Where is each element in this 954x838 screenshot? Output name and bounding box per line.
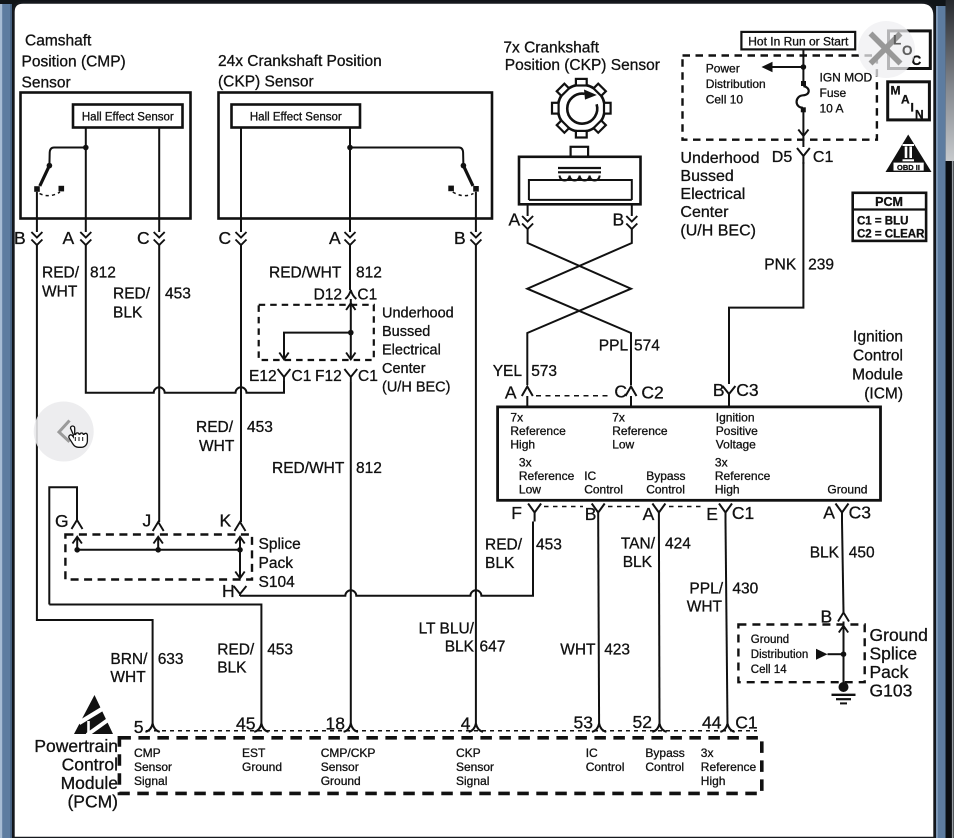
svg-text:Voltage: Voltage xyxy=(716,438,756,452)
svg-text:Positive: Positive xyxy=(716,424,758,438)
OBD II triangle xyxy=(886,135,932,173)
CKP switch blade xyxy=(463,166,473,186)
svg-text:BRN/: BRN/ xyxy=(110,651,148,668)
svg-text:Electrical: Electrical xyxy=(382,343,441,359)
wire CMP B down to PCM pin 5 xyxy=(37,245,153,725)
svg-text:S104: S104 xyxy=(259,574,296,591)
svg-text:C2: C2 xyxy=(641,383,663,403)
wire 7x lead B xyxy=(631,204,633,216)
splice bus bar xyxy=(77,549,240,551)
node CMP switch pivot xyxy=(47,163,53,169)
wire PNK 239 xyxy=(729,162,803,384)
svg-text:Pack: Pack xyxy=(259,555,294,572)
CMP hall effect sensor box xyxy=(73,105,183,128)
svg-text:24x Crankshaft Position: 24x Crankshaft Position xyxy=(218,53,382,70)
svg-text:IGN MOD: IGN MOD xyxy=(820,71,873,85)
svg-text:430: 430 xyxy=(732,581,758,598)
fuse IGN MOD xyxy=(801,81,806,86)
power distribution dashed box xyxy=(683,56,877,140)
svg-text:812: 812 xyxy=(356,460,382,477)
svg-text:5: 5 xyxy=(134,717,144,737)
svg-text:Sensor: Sensor xyxy=(456,760,494,774)
svg-text:52: 52 xyxy=(633,712,652,732)
wire ICM A(ground) down xyxy=(842,522,844,613)
svg-text:7x Crankshaft: 7x Crankshaft xyxy=(503,40,599,57)
svg-text:B: B xyxy=(454,228,466,248)
svg-text:BLK: BLK xyxy=(810,545,840,562)
node splice J xyxy=(155,547,161,553)
svg-text:C3: C3 xyxy=(849,503,871,523)
svg-text:F: F xyxy=(511,503,522,523)
svg-text:Sensor: Sensor xyxy=(22,75,71,92)
svg-text:D5: D5 xyxy=(772,149,793,166)
label Ignition Control Module (ICM) xyxy=(852,329,903,403)
svg-text:Underhood: Underhood xyxy=(382,306,454,322)
svg-text:L: L xyxy=(893,33,901,48)
svg-text:Ignition: Ignition xyxy=(853,329,903,346)
svg-text:(ICM): (ICM) xyxy=(864,386,903,403)
wire 7x lead A xyxy=(527,204,529,216)
svg-text:453: 453 xyxy=(267,642,293,659)
CMP switch travel arc xyxy=(40,192,61,196)
CKP sensor box xyxy=(219,93,493,219)
svg-text:3x: 3x xyxy=(715,456,728,470)
svg-text:453: 453 xyxy=(165,286,191,303)
node CMP switch junction xyxy=(83,145,89,151)
ESD warning symbol xyxy=(74,695,114,735)
svg-text:E12: E12 xyxy=(249,368,277,385)
svg-text:Cell 10: Cell 10 xyxy=(706,93,744,107)
svg-text:IC: IC xyxy=(586,746,598,760)
wire ICM E to PCM pin 44 xyxy=(726,522,728,725)
wire twisted pair leg 2 (B to bottom C) xyxy=(527,229,632,385)
connector D5 Y xyxy=(797,148,810,164)
CMP sensor box xyxy=(21,93,191,219)
wire CMP A down to E12 horizontal with hops xyxy=(86,245,284,393)
svg-text:Splice: Splice xyxy=(259,536,301,553)
MAIN box xyxy=(888,82,930,120)
splice arrow J up xyxy=(157,537,159,550)
wire ICM A to PCM pin 52 xyxy=(658,522,661,725)
svg-text:G: G xyxy=(55,511,69,531)
svg-text:High: High xyxy=(510,438,535,452)
svg-text:EST: EST xyxy=(242,746,266,760)
svg-text:(U/H BEC): (U/H BEC) xyxy=(680,223,756,240)
PCM dashed box xyxy=(119,738,761,794)
svg-text:812: 812 xyxy=(90,265,116,282)
svg-text:RED/: RED/ xyxy=(113,286,151,303)
svg-text:B: B xyxy=(613,210,625,230)
svg-text:450: 450 xyxy=(849,545,875,562)
ICM box xyxy=(498,407,881,500)
svg-text:Ground: Ground xyxy=(242,760,282,774)
node power junction xyxy=(801,64,807,70)
svg-text:Powertrain: Powertrain xyxy=(34,736,118,756)
svg-text:C: C xyxy=(614,382,627,402)
svg-text:Reference: Reference xyxy=(715,469,771,483)
svg-text:IC: IC xyxy=(584,469,596,483)
svg-text:Power: Power xyxy=(706,62,740,76)
svg-text:TAN/: TAN/ xyxy=(621,536,656,553)
svg-text:Hall Effect Sensor: Hall Effect Sensor xyxy=(82,112,174,124)
svg-text:Position (CMP): Position (CMP) xyxy=(22,54,126,71)
svg-text:Center: Center xyxy=(680,204,729,221)
svg-text:Center: Center xyxy=(382,361,426,377)
svg-text:812: 812 xyxy=(356,265,382,282)
wire CKP C down to splice K xyxy=(240,245,242,522)
svg-text:CKP: CKP xyxy=(456,746,481,760)
svg-text:RED/: RED/ xyxy=(217,642,255,659)
svg-text:Bypass: Bypass xyxy=(646,469,685,483)
svg-text:Sensor: Sensor xyxy=(134,760,172,774)
wire fuse to D5 xyxy=(802,112,804,136)
ICM pin function labels row 1 xyxy=(510,411,758,452)
svg-text:53: 53 xyxy=(574,713,593,733)
pickup coil windings xyxy=(560,176,600,181)
svg-text:Reference: Reference xyxy=(519,469,575,483)
svg-text:C1: C1 xyxy=(813,149,834,166)
node UH BEC junction xyxy=(348,330,354,336)
svg-text:Cell 14: Cell 14 xyxy=(751,664,787,676)
svg-text:Reference: Reference xyxy=(701,760,757,774)
wire twisted pair leg 1 (A to bottom A) xyxy=(527,229,631,385)
svg-text:Fuse: Fuse xyxy=(820,86,847,100)
svg-text:Low: Low xyxy=(519,483,541,497)
svg-text:(PCM): (PCM) xyxy=(67,792,118,812)
svg-text:Hot In Run or Start: Hot In Run or Start xyxy=(748,34,849,48)
close button X xyxy=(873,36,899,62)
svg-text:A: A xyxy=(901,93,910,107)
PCM pin labels xyxy=(134,746,756,788)
svg-text:F12: F12 xyxy=(315,368,342,385)
svg-text:BLK: BLK xyxy=(445,639,475,656)
svg-text:(U/H BEC): (U/H BEC) xyxy=(382,380,450,396)
svg-text:High: High xyxy=(715,483,740,497)
wire CKP switch arm horizontal xyxy=(350,148,463,166)
svg-text:Module: Module xyxy=(61,773,118,793)
svg-text:WHT: WHT xyxy=(42,284,78,301)
svg-text:C: C xyxy=(219,228,232,248)
svg-text:D12: D12 xyxy=(314,287,342,304)
svg-text:CMP: CMP xyxy=(134,746,161,760)
svg-text:647: 647 xyxy=(480,639,506,656)
svg-text:Ground: Ground xyxy=(870,625,928,645)
svg-text:239: 239 xyxy=(808,257,834,274)
svg-text:N: N xyxy=(915,108,924,122)
wire BLK through ground box xyxy=(843,622,845,684)
svg-text:BLK: BLK xyxy=(623,554,653,571)
CKP hall effect sensor box xyxy=(232,105,361,128)
wire CMP C down to splice J xyxy=(158,245,160,522)
svg-text:LT BLU/: LT BLU/ xyxy=(419,621,475,638)
label Ground Distribution Cell 14 xyxy=(751,634,809,676)
svg-text:A: A xyxy=(329,228,341,248)
wire CKP hall lead A internal xyxy=(349,128,351,233)
svg-text:Ignition: Ignition xyxy=(716,411,755,425)
hand cursor xyxy=(69,426,88,447)
svg-text:423: 423 xyxy=(604,642,630,659)
Hot In Run or Start box xyxy=(741,32,855,50)
splice arrow K up xyxy=(239,537,241,550)
svg-text:Distribution: Distribution xyxy=(751,649,809,661)
dashed connector face F-B xyxy=(544,506,583,508)
close button halo xyxy=(858,21,915,78)
svg-text:453: 453 xyxy=(247,419,273,436)
svg-text:C3: C3 xyxy=(736,380,758,400)
svg-text:A: A xyxy=(63,228,75,248)
svg-text:Control: Control xyxy=(584,483,623,497)
svg-text:RED/: RED/ xyxy=(485,537,523,554)
svg-text:Underhood: Underhood xyxy=(680,150,759,167)
svg-text:(CKP) Sensor: (CKP) Sensor xyxy=(218,74,314,91)
svg-text:PPL: PPL xyxy=(599,338,629,355)
node ground splice junction xyxy=(841,651,847,657)
wire F12 down to PCM pin 18 xyxy=(350,382,352,725)
svg-text:A: A xyxy=(509,210,521,230)
splice pack S104 dashed box xyxy=(65,535,252,580)
left blue strip xyxy=(0,4,12,838)
wire CMP switch arm horizontal xyxy=(49,148,85,166)
splice arrow G up xyxy=(76,537,78,550)
wire CMP hall lead C internal xyxy=(158,128,160,233)
dashed connector face A to C xyxy=(536,395,612,397)
svg-text:4: 4 xyxy=(461,714,471,734)
wire D12 through box xyxy=(350,299,352,358)
svg-text:C2 = CLEAR: C2 = CLEAR xyxy=(857,229,925,241)
svg-text:Position (CKP) Sensor: Position (CKP) Sensor xyxy=(505,57,660,74)
svg-text:H: H xyxy=(222,581,235,601)
svg-text:Ground: Ground xyxy=(827,483,867,497)
svg-text:A: A xyxy=(643,504,655,524)
svg-text:Bussed: Bussed xyxy=(382,324,430,340)
arrow from ground distribution xyxy=(816,649,828,660)
CMP switch contact right xyxy=(59,186,65,192)
svg-text:WHT: WHT xyxy=(110,669,146,686)
svg-text:Hall Effect Sensor: Hall Effect Sensor xyxy=(250,112,342,124)
label Powertrain Control Module (PCM) xyxy=(34,736,118,812)
svg-text:Distribution: Distribution xyxy=(706,77,766,91)
svg-text:I: I xyxy=(911,101,914,115)
svg-text:K: K xyxy=(220,511,232,531)
7x CKP sensor title xyxy=(503,40,659,75)
svg-text:C1: C1 xyxy=(292,368,312,385)
label Bussed Electrical Center (U/H BEC) xyxy=(680,168,756,240)
dashed connector face A-E xyxy=(669,506,705,508)
svg-text:3x: 3x xyxy=(701,746,714,760)
node splice G xyxy=(74,547,80,553)
node CKP switch junction xyxy=(347,145,353,151)
svg-text:C1: C1 xyxy=(358,368,378,385)
CKP switch contact left xyxy=(448,186,454,192)
svg-text:573: 573 xyxy=(531,363,557,380)
label IGN MOD Fuse 10 A xyxy=(820,71,873,116)
svg-text:PPL/: PPL/ xyxy=(689,581,723,598)
svg-text:Ground: Ground xyxy=(751,634,789,646)
svg-text:Bussed: Bussed xyxy=(680,168,733,185)
node splice K xyxy=(237,547,243,553)
svg-text:3x: 3x xyxy=(519,456,532,470)
svg-text:WHT: WHT xyxy=(687,599,723,616)
7x CKP reluctor gear xyxy=(552,79,611,138)
node CKP switch pivot xyxy=(461,163,467,169)
svg-text:Low: Low xyxy=(612,438,634,452)
wire ICM B to PCM pin 53 xyxy=(597,522,600,725)
splice K down to H xyxy=(239,550,241,578)
svg-text:Signal: Signal xyxy=(456,774,489,788)
svg-text:424: 424 xyxy=(665,536,691,553)
prev chevron xyxy=(59,421,70,442)
svg-text:Bypass: Bypass xyxy=(645,746,684,760)
svg-text:High: High xyxy=(701,774,726,788)
label Power Distribution Cell 10 xyxy=(706,62,766,107)
wire from hot box xyxy=(802,49,804,81)
svg-text:18: 18 xyxy=(326,714,345,734)
svg-text:A: A xyxy=(505,383,517,403)
svg-text:WHT: WHT xyxy=(560,642,596,659)
CMP switch contact left xyxy=(34,186,40,192)
svg-text:10 A: 10 A xyxy=(820,102,844,116)
label Ground Splice Pack G103 xyxy=(870,625,928,701)
ICM pin function labels row 2 xyxy=(519,456,868,497)
svg-text:574: 574 xyxy=(634,338,660,355)
PCM connector legend box xyxy=(853,193,926,241)
svg-text:7x: 7x xyxy=(510,411,523,425)
svg-text:RED/: RED/ xyxy=(42,265,80,282)
ground distribution dashed box xyxy=(738,625,864,683)
svg-text:Control: Control xyxy=(645,760,684,774)
svg-text:Control: Control xyxy=(853,348,903,365)
svg-text:B: B xyxy=(713,380,725,400)
svg-text:BLK: BLK xyxy=(217,660,247,677)
svg-text:OBD II: OBD II xyxy=(897,163,920,172)
CMP sensor title xyxy=(22,33,126,92)
wire G jog (CMP B branch up-over) xyxy=(49,487,77,604)
svg-text:Sensor: Sensor xyxy=(321,760,359,774)
svg-text:PCM: PCM xyxy=(875,195,903,209)
LOC box xyxy=(889,31,931,69)
CMP switch blade xyxy=(40,166,50,186)
wire H to ICM F with hops xyxy=(240,522,533,596)
svg-text:RED/: RED/ xyxy=(196,419,234,436)
7x sensor connector tab xyxy=(571,147,589,157)
svg-text:A: A xyxy=(823,503,835,523)
svg-text:B: B xyxy=(14,228,26,248)
svg-text:J: J xyxy=(143,511,152,531)
svg-text:Module: Module xyxy=(852,367,903,384)
ground G103 symbol xyxy=(839,682,849,692)
svg-text:PNK: PNK xyxy=(764,257,797,274)
svg-text:Signal: Signal xyxy=(134,774,167,788)
svg-text:Splice: Splice xyxy=(870,644,918,664)
arrow to power distribution xyxy=(772,66,803,68)
CKP switch travel arc xyxy=(453,192,474,196)
svg-text:Ground: Ground xyxy=(321,774,361,788)
wire CMP terminal B lead xyxy=(36,192,38,232)
wire CKP terminal B lead xyxy=(475,192,477,232)
wire CKP A down to D12 xyxy=(349,245,351,290)
svg-text:453: 453 xyxy=(536,537,562,554)
svg-text:Reference: Reference xyxy=(510,424,566,438)
rotation arrow inside gear xyxy=(567,94,597,124)
wire CMP hall lead A internal xyxy=(85,128,87,233)
CKP switch contact right xyxy=(473,186,479,192)
svg-text:C1: C1 xyxy=(357,287,377,304)
svg-text:Reference: Reference xyxy=(612,424,668,438)
svg-text:M: M xyxy=(891,84,901,98)
prev page button halo xyxy=(34,402,94,462)
24x CKP sensor title xyxy=(218,53,382,91)
svg-text:633: 633 xyxy=(158,651,184,668)
svg-text:Camshaft: Camshaft xyxy=(25,33,92,50)
svg-text:45: 45 xyxy=(236,714,255,734)
svg-text:C1: C1 xyxy=(735,713,757,733)
svg-text:Pack: Pack xyxy=(870,662,909,682)
svg-text:O: O xyxy=(902,43,913,58)
wire CKP hall lead C internal xyxy=(240,128,242,233)
dashed connector face B-A xyxy=(608,506,642,508)
svg-text:RED/WHT: RED/WHT xyxy=(272,460,345,477)
wire CKP B down to PCM pin 4 xyxy=(475,245,477,725)
svg-text:Control: Control xyxy=(62,755,118,775)
svg-text:7x: 7x xyxy=(612,411,625,425)
svg-text:Electrical: Electrical xyxy=(680,186,745,203)
U/H BEC small dashed box xyxy=(259,305,374,360)
svg-text:BLK: BLK xyxy=(113,305,143,322)
thin dashed PCM connector face xyxy=(146,730,757,732)
svg-text:WHT: WHT xyxy=(199,438,235,455)
wire G-line to PCM pin 45 xyxy=(49,605,261,725)
label Underhood Bussed Electrical Center (U/H BEC) small xyxy=(382,306,454,396)
svg-text:C1: C1 xyxy=(732,503,754,523)
pickup coil core lines xyxy=(558,167,601,169)
svg-text:Control: Control xyxy=(586,760,625,774)
svg-text:CMP/CKP: CMP/CKP xyxy=(321,746,376,760)
7x sensor inner frame xyxy=(529,180,632,200)
svg-text:Control: Control xyxy=(646,483,685,497)
right blue strip xyxy=(936,6,946,838)
svg-text:44: 44 xyxy=(702,713,722,733)
svg-text:BLK: BLK xyxy=(485,555,515,572)
LOC letters over halo xyxy=(893,33,913,59)
svg-text:RED/WHT: RED/WHT xyxy=(269,265,342,282)
7x sensor body xyxy=(519,157,641,205)
svg-text:E: E xyxy=(706,504,718,524)
wire branch to E12 xyxy=(284,333,351,358)
svg-text:YEL: YEL xyxy=(493,363,523,380)
svg-text:C: C xyxy=(137,228,150,248)
svg-text:C1 = BLU: C1 = BLU xyxy=(857,216,908,228)
svg-text:G103: G103 xyxy=(870,681,913,701)
